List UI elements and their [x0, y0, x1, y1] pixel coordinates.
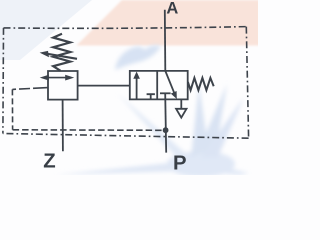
spring S2 (right of V2)	[188, 78, 214, 90]
wire Z port line	[62, 100, 64, 152]
diagonal flow path (V2 right position)	[165, 71, 174, 93]
arrowhead of adjustment arrow	[40, 51, 49, 57]
arrowhead left of double arrow	[40, 75, 49, 81]
adjustment arrow shaft across spring S1	[47, 54, 78, 59]
directional valve V2 body (two squares)	[130, 71, 188, 100]
arrowhead right of double arrow	[65, 75, 74, 81]
wire port P line	[165, 93, 166, 152]
junction dot at P / pilot line	[163, 127, 169, 133]
drain tank triangle	[176, 109, 186, 118]
pilot line Z (dashed) from pressure element around to P junction	[12, 88, 48, 90]
double-headed arrow (control piston) in V1	[45, 77, 70, 79]
svg-text:A: A	[166, 0, 178, 17]
divider between V2 positions	[156, 71, 158, 100]
flow path arrow (V2 left position) shaft	[136, 78, 138, 100]
wire: pilot connection V1 to directional valve V2	[78, 85, 130, 87]
svg-text:Z: Z	[43, 150, 55, 172]
spring S1 (adjustable, above V1)	[53, 34, 70, 71]
drain line below V2	[180, 99, 182, 108]
wire port A line	[164, 10, 167, 71]
arrowhead of V2 left-position flow arrow	[133, 72, 140, 79]
enclosure (dash-dot assembly boundary)	[4, 27, 247, 29]
blocked port T (V2 right position, port P)	[160, 92, 171, 94]
watermark background shapes (decorative)	[0, 0, 92, 60]
arrowhead of V2 diagonal flow path	[171, 91, 177, 99]
blocked port T (V2 left position)	[147, 94, 155, 99]
svg-text:P: P	[173, 152, 187, 174]
valve body V1 (pressure adjustment element, square)	[48, 71, 78, 100]
